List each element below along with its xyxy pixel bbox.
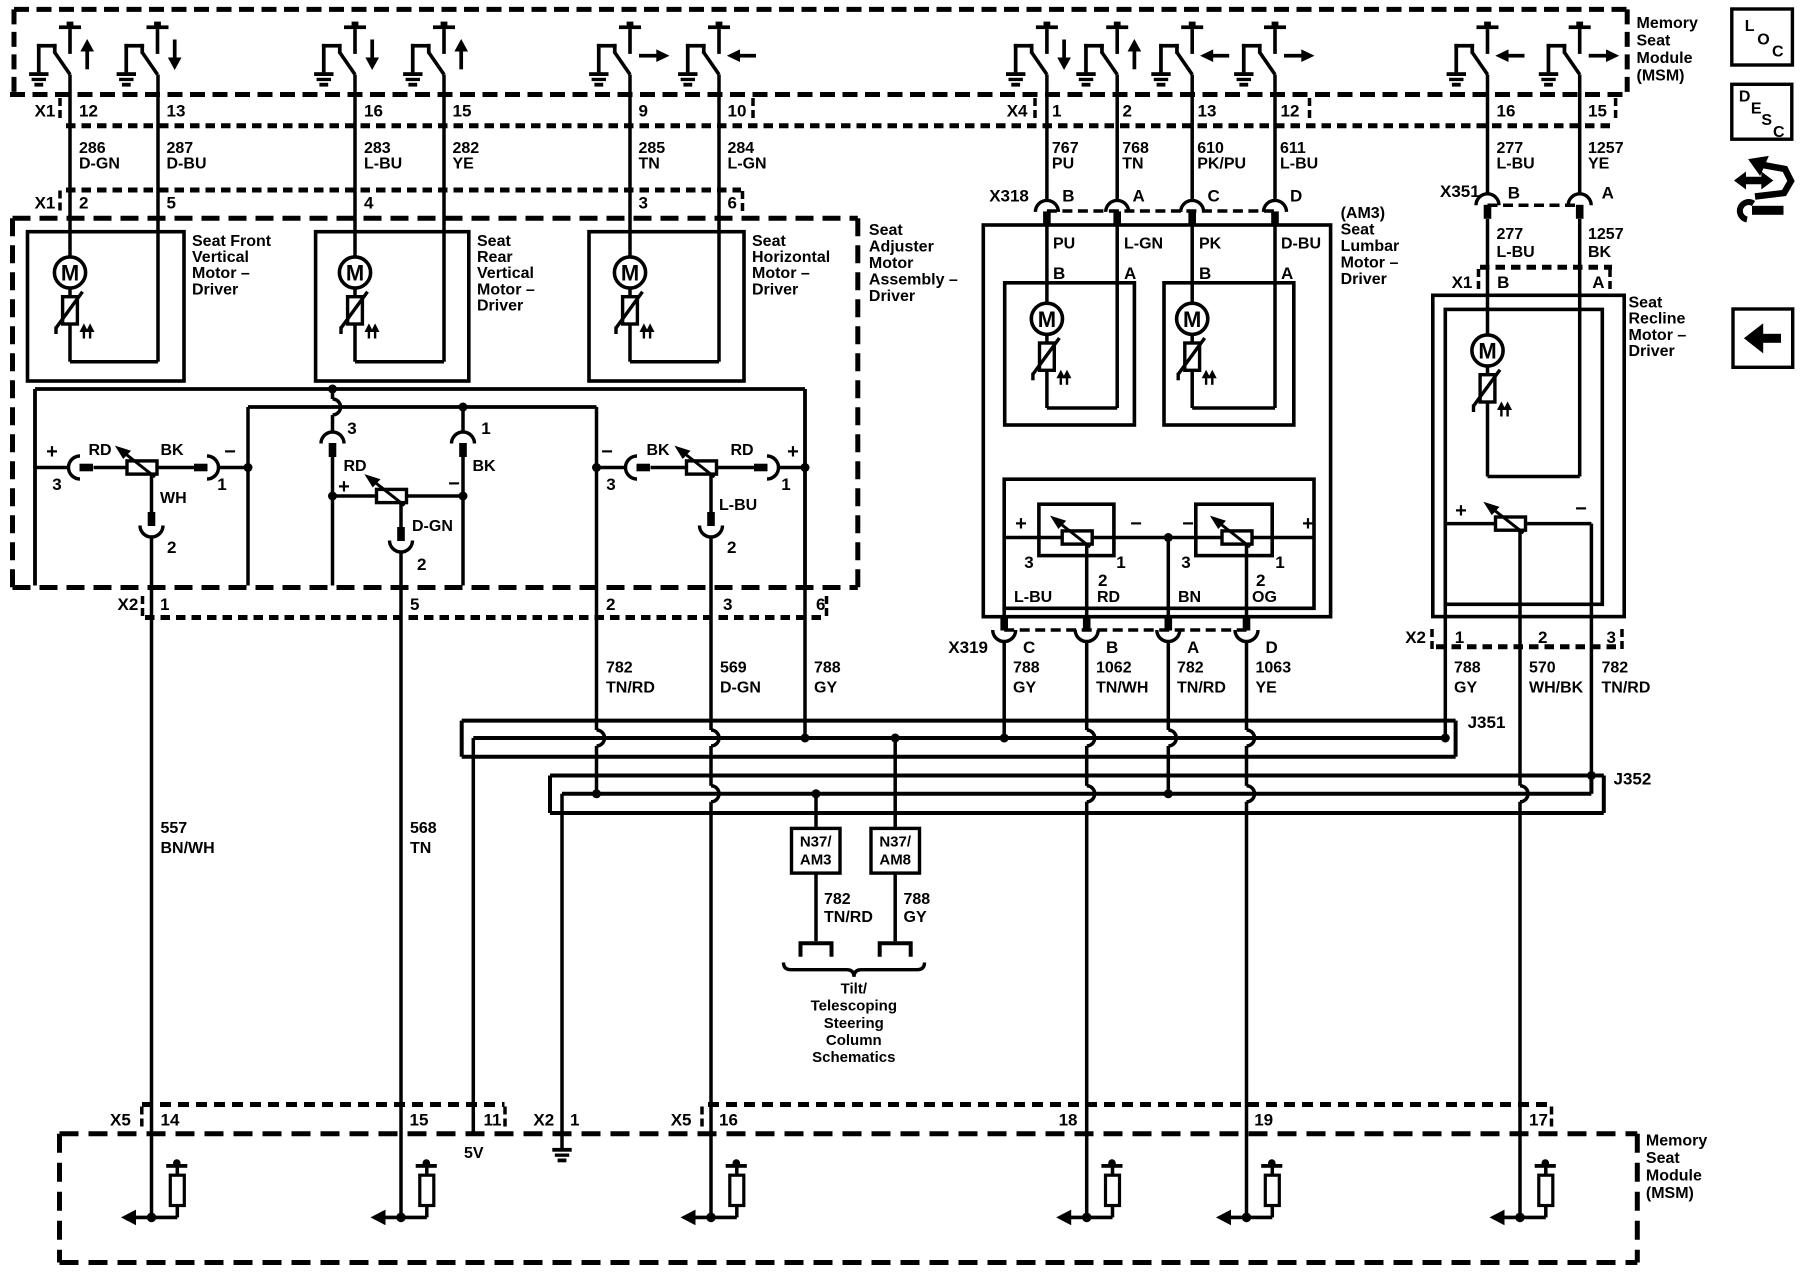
connector X319 pin D — [1235, 630, 1258, 642]
splice J351 bus bottom line L3 — [462, 755, 1456, 759]
connector X318 pin B — [1035, 200, 1058, 212]
svg-text:TN: TN — [639, 156, 660, 173]
wire 788 GY from X2-6 — [803, 586, 807, 739]
svg-text:+: + — [1302, 513, 1314, 535]
node splice J352 A — [1164, 789, 1173, 798]
connector pot2 pin1 — [452, 432, 475, 443]
node splice on J352 — [592, 789, 601, 798]
svg-text:J351: J351 — [1468, 713, 1506, 732]
svg-text:D: D — [1290, 187, 1302, 206]
switch S10 lumbar fwd — [1234, 22, 1313, 87]
connector X319 pin B — [1075, 630, 1098, 642]
svg-text:+: + — [787, 441, 799, 463]
svg-text:16: 16 — [364, 102, 383, 121]
svg-text:15: 15 — [410, 1111, 429, 1130]
connector pot3 pin1 — [767, 456, 779, 479]
svg-text:Horizontal: Horizontal — [752, 249, 830, 266]
svg-text:TN: TN — [410, 840, 431, 857]
svg-text:X2: X2 — [118, 595, 139, 614]
svg-text:Assembly –: Assembly – — [869, 272, 958, 289]
connector X318 pin A — [1106, 200, 1129, 212]
wire 282 YE pin15 loop — [442, 75, 446, 362]
connector pot1 pin3 — [69, 456, 81, 479]
svg-text:Seat Front: Seat Front — [192, 233, 272, 250]
connector X318 pin D — [1264, 200, 1287, 212]
connector X319 pin A — [1157, 630, 1180, 642]
splice J351 bus top line L1 — [462, 719, 1456, 723]
wire X351-B to recline motor — [1486, 219, 1490, 335]
off-page shoe right — [880, 943, 911, 957]
wire J352 right staple — [1602, 776, 1606, 814]
svg-text:17: 17 — [1529, 1111, 1548, 1130]
svg-text:788: 788 — [814, 660, 841, 677]
svg-text:286: 286 — [79, 140, 106, 157]
svg-text:BK: BK — [472, 458, 496, 475]
wires X318 stubs into AM3 box — [1045, 226, 1049, 283]
wire lumbar R feed — [1190, 283, 1194, 303]
motor M3 seat horizontal — [614, 257, 653, 339]
recline inner box — [1445, 309, 1602, 604]
svg-text:3: 3 — [1024, 553, 1033, 572]
wire label 285 TN — [639, 140, 666, 173]
Memory Seat Module (MSM) top dashed box — [10, 9, 1627, 94]
brace — [784, 963, 925, 977]
svg-text:A: A — [1592, 273, 1604, 292]
wire pot3 - side — [597, 466, 626, 470]
svg-text:16: 16 — [1497, 102, 1516, 121]
svg-text:J352: J352 — [1614, 770, 1652, 789]
svg-text:15: 15 — [1588, 102, 1607, 121]
icon LOC box — [1732, 9, 1793, 65]
svg-text:A: A — [1124, 264, 1136, 283]
wire pot3 BK — [651, 466, 687, 470]
svg-text:1: 1 — [570, 1111, 579, 1130]
svg-text:Lumbar: Lumbar — [1341, 238, 1400, 255]
wire lumbar pot feed right — [1252, 536, 1314, 540]
svg-text:2: 2 — [417, 555, 426, 574]
svg-text:BN/WH: BN/WH — [161, 840, 215, 857]
svg-text:Seat: Seat — [1646, 1150, 1680, 1167]
svg-text:PK: PK — [1199, 235, 1222, 252]
svg-text:D-BU: D-BU — [1281, 235, 1321, 252]
svg-text:C: C — [1772, 44, 1784, 61]
motor M2 seat rear vertical — [339, 257, 378, 339]
svg-text:Driver: Driver — [869, 288, 915, 305]
svg-text:−: − — [224, 441, 236, 463]
connector pot1 pin1 — [207, 456, 219, 479]
svg-text:2: 2 — [727, 538, 736, 557]
wire line B right drop to X2-2 — [595, 407, 599, 586]
svg-text:GY: GY — [814, 680, 837, 697]
svg-text:X4: X4 — [1007, 102, 1028, 121]
wire lumbar mid vertical — [1167, 538, 1171, 617]
node splice J351 C — [1000, 734, 1009, 743]
connector pot3 pin2 — [700, 526, 723, 538]
svg-text:B: B — [1062, 187, 1074, 206]
svg-text:1: 1 — [217, 475, 226, 494]
svg-text:Schematics: Schematics — [812, 1049, 895, 1066]
node lumbar mid junction — [1164, 533, 1173, 542]
lumbar motor box R — [1164, 283, 1294, 425]
svg-text:B: B — [1106, 638, 1118, 657]
wire J351 right staple — [1454, 721, 1458, 757]
wire 287 D-BU pin13 loop — [156, 75, 160, 362]
switch S4 seat rear vertical up — [403, 22, 467, 87]
wire label 1257 BK — [1588, 226, 1624, 261]
wire pot2 wiper D-GN — [399, 502, 403, 527]
svg-text:9: 9 — [639, 102, 648, 121]
label Tilt/Telescoping Steering Column Schematics — [811, 981, 897, 1066]
wire pot1 - side — [219, 466, 249, 470]
label Seat Rear Vertical Motor - Driver — [477, 233, 535, 315]
pull-up resistor + signal arrow pin14 — [122, 1159, 187, 1224]
connector row X351 — [1440, 182, 1580, 205]
switch S6 seat horizontal back — [678, 22, 756, 87]
svg-text:X351: X351 — [1440, 182, 1480, 201]
svg-text:AM8: AM8 — [879, 852, 911, 869]
svg-text:16: 16 — [719, 1111, 738, 1130]
wire pot3 + side — [779, 466, 806, 470]
node splice on J351 — [801, 734, 810, 743]
node splice J351 recline — [1441, 734, 1450, 743]
wire label 788 GY steering — [904, 891, 931, 926]
svg-text:X1: X1 — [35, 194, 56, 213]
svg-text:YE: YE — [1588, 156, 1610, 173]
svg-text:Motor –: Motor – — [477, 281, 535, 298]
svg-text:5: 5 — [167, 194, 176, 213]
svg-text:1: 1 — [481, 419, 490, 438]
wire label 768 TN — [1122, 140, 1149, 173]
svg-text:13: 13 — [167, 102, 186, 121]
switch S9 lumbar back — [1151, 22, 1229, 87]
svg-text:1: 1 — [1052, 102, 1061, 121]
svg-text:M: M — [346, 261, 364, 286]
wire pot2 + vertical — [331, 457, 335, 586]
Memory Seat Module (MSM) bottom dashed box — [60, 1134, 1638, 1263]
wire 788 GY to steering column — [893, 873, 897, 941]
svg-text:3: 3 — [639, 194, 648, 213]
svg-text:Vertical: Vertical — [192, 249, 249, 266]
svg-text:RD: RD — [343, 458, 366, 475]
svg-text:Seat: Seat — [1629, 294, 1663, 311]
svg-text:15: 15 — [453, 102, 472, 121]
svg-text:A: A — [1187, 638, 1199, 657]
wire label 286 D-GN — [79, 140, 120, 173]
wire lumbar left edge down — [1002, 608, 1006, 616]
svg-text:GY: GY — [1454, 680, 1477, 697]
svg-text:Tilt/: Tilt/ — [841, 981, 868, 998]
svg-text:610: 610 — [1197, 140, 1224, 157]
svg-text:3: 3 — [606, 475, 615, 494]
wire 1062 TN/WH X319-B — [1085, 642, 1089, 731]
svg-text:1: 1 — [1455, 628, 1464, 647]
switch S12 recline fwd — [1539, 22, 1618, 87]
svg-text:782: 782 — [824, 891, 851, 908]
svg-text:WH/BK: WH/BK — [1529, 680, 1584, 697]
svg-text:M: M — [1478, 339, 1496, 364]
svg-text:A: A — [1133, 187, 1145, 206]
svg-text:1: 1 — [160, 595, 169, 614]
potentiometer P4 lumbar position A — [1051, 517, 1092, 548]
svg-text:Seat: Seat — [869, 222, 903, 239]
lumbar pot labels — [1014, 513, 1314, 606]
switch S11 recline back — [1447, 22, 1525, 87]
svg-text:AM3: AM3 — [800, 852, 832, 869]
wire pot1 + side — [35, 466, 69, 470]
svg-text:Driver: Driver — [1341, 271, 1387, 288]
node pot3 + junction — [801, 463, 810, 472]
potentiometer P3 seat horizontal position — [676, 447, 717, 478]
wire 284 L-GN pin10 loop — [717, 75, 721, 362]
svg-text:767: 767 — [1052, 140, 1079, 157]
wire M2 loop — [353, 324, 357, 362]
svg-text:X5: X5 — [110, 1111, 131, 1130]
AM3 Seat Lumbar Motor outer box — [983, 225, 1330, 617]
svg-text:TN/RD: TN/RD — [1177, 680, 1226, 697]
svg-text:Seat: Seat — [477, 233, 511, 250]
switch S2 seat front vertical down — [117, 22, 181, 87]
svg-text:2: 2 — [167, 538, 176, 557]
wire pot2 pin3 drop with hop — [331, 389, 335, 399]
wire label 610 PK/PU — [1197, 140, 1246, 173]
wire J352 riser to L4 — [1589, 776, 1593, 794]
wire 1257 YE pin15 — [1578, 75, 1582, 195]
svg-text:2: 2 — [1098, 571, 1107, 590]
connector row X2 dotted line — [145, 615, 827, 620]
Seat Adjuster Motor Assembly dashed box — [13, 218, 858, 587]
svg-text:3: 3 — [1181, 553, 1190, 572]
svg-text:L-BU: L-BU — [1497, 244, 1535, 261]
svg-text:YE: YE — [453, 156, 475, 173]
svg-text:3: 3 — [723, 595, 732, 614]
svg-text:TN/RD: TN/RD — [824, 909, 873, 926]
motor M5 lumbar R — [1177, 303, 1216, 385]
connector row X2 recline — [1405, 628, 1622, 649]
node splice J352 N37 — [812, 789, 821, 798]
connector row X1 recline labels — [1452, 269, 1610, 292]
wire N37/AM8 up to J351 — [893, 738, 897, 828]
label Seat Adjuster Motor Assembly - Driver — [869, 222, 958, 305]
potentiometer P2 seat rear vertical position — [366, 475, 407, 506]
potentiometer P5 lumbar position B — [1211, 517, 1252, 548]
svg-text:10: 10 — [728, 102, 747, 121]
connector pot2 pin3 — [321, 432, 344, 443]
svg-text:788: 788 — [1454, 660, 1481, 677]
svg-text:2: 2 — [1538, 628, 1547, 647]
svg-text:782: 782 — [1177, 660, 1204, 677]
svg-text:M: M — [1183, 307, 1201, 332]
svg-text:283: 283 — [364, 140, 391, 157]
pull-up resistor + signal arrow pin16 — [682, 1159, 747, 1224]
svg-text:TN/RD: TN/RD — [1602, 680, 1651, 697]
svg-text:+: + — [338, 476, 350, 498]
wire pot1 BK — [157, 466, 194, 470]
wire label 282 YE — [453, 140, 480, 173]
svg-text:Steering: Steering — [824, 1015, 884, 1032]
svg-text:1: 1 — [781, 475, 790, 494]
svg-text:BK: BK — [646, 442, 670, 459]
svg-text:Driver: Driver — [192, 281, 238, 298]
wire 5V line L2 — [473, 736, 1445, 740]
svg-text:12: 12 — [1281, 102, 1300, 121]
svg-text:14: 14 — [161, 1111, 180, 1130]
connector pot2 pin2 — [390, 541, 413, 553]
connector row X1/X4 pin labels — [35, 98, 1616, 121]
svg-text:PU: PU — [1052, 156, 1074, 173]
svg-text:2: 2 — [79, 194, 88, 213]
svg-text:3: 3 — [52, 475, 61, 494]
svg-text:YE: YE — [1256, 680, 1278, 697]
wire M3 loop — [628, 324, 632, 362]
svg-text:D-GN: D-GN — [79, 156, 120, 173]
label Seat Front Vertical Motor - Driver — [192, 233, 272, 299]
node splice J351 N37 — [891, 734, 900, 743]
motor M1 seat front vertical — [54, 257, 93, 339]
pull-up resistor + signal arrow pin18 — [1057, 1159, 1122, 1224]
svg-text:569: 569 — [720, 660, 747, 677]
svg-text:788: 788 — [1013, 660, 1040, 677]
svg-text:C: C — [1023, 638, 1035, 657]
label Seat Recline Motor - Driver — [1629, 294, 1687, 360]
svg-text:13: 13 — [1198, 102, 1217, 121]
svg-text:4: 4 — [364, 194, 374, 213]
splice J352 top line L4 — [550, 774, 1604, 778]
svg-text:Module: Module — [1646, 1168, 1702, 1185]
svg-text:B: B — [1508, 183, 1520, 202]
off-page shoe left — [801, 943, 832, 957]
svg-text:Telescoping: Telescoping — [811, 998, 897, 1015]
lumbar pot B small box — [1196, 504, 1272, 555]
svg-text:RD: RD — [88, 442, 111, 459]
svg-text:782: 782 — [606, 660, 633, 677]
wire labels inside AM3 top — [1053, 235, 1321, 252]
svg-text:C: C — [1208, 187, 1220, 206]
svg-text:X1: X1 — [35, 102, 56, 121]
connector X319 pin C — [993, 630, 1016, 642]
wire M1 loop — [68, 324, 72, 362]
svg-text:TN/WH: TN/WH — [1096, 680, 1148, 697]
connector row X318 — [989, 187, 1275, 211]
connector pot1 pin2 — [140, 526, 163, 538]
svg-text:Memory: Memory — [1646, 1133, 1707, 1150]
svg-text:Memory: Memory — [1637, 15, 1698, 32]
svg-text:X5: X5 — [671, 1111, 692, 1130]
svg-text:5: 5 — [410, 595, 419, 614]
icon double arrow + wrench — [1734, 157, 1791, 220]
Seat Front Vertical Motor box — [28, 232, 185, 381]
icon back arrow box — [1733, 309, 1793, 367]
svg-text:RD: RD — [1097, 589, 1120, 606]
svg-text:285: 285 — [639, 140, 666, 157]
svg-text:A: A — [1281, 264, 1293, 283]
svg-text:D-GN: D-GN — [720, 680, 761, 697]
wire label 277 L-BU — [1497, 140, 1535, 173]
wire label 611 L-BU — [1280, 140, 1318, 173]
wire 277 L-BU pin16 — [1486, 75, 1490, 195]
wire 568 TN down — [399, 552, 403, 1217]
svg-text:Motor: Motor — [869, 255, 913, 272]
connector N37/AM8 box — [871, 828, 920, 873]
wire 782 TN/RD drop to X2-1 ground — [560, 794, 564, 1148]
svg-text:1062: 1062 — [1096, 660, 1132, 677]
svg-text:−: − — [601, 441, 613, 463]
wire label 782 TN/RD steering — [824, 891, 873, 926]
svg-text:3: 3 — [1607, 628, 1616, 647]
svg-text:611: 611 — [1280, 140, 1306, 157]
svg-text:Driver: Driver — [477, 298, 523, 315]
svg-text:PK/PU: PK/PU — [1197, 156, 1246, 173]
supply line B — [248, 405, 597, 409]
svg-text:TN/RD: TN/RD — [606, 680, 655, 697]
pin letters inside AM3 — [1053, 264, 1293, 283]
svg-text:L-BU: L-BU — [1497, 156, 1535, 173]
svg-text:Motor –: Motor – — [192, 265, 250, 282]
pot2 labels — [338, 419, 496, 574]
pot1 labels — [46, 441, 236, 557]
label Memory Seat Module (MSM) top — [1637, 15, 1698, 85]
connector X351 pin B — [1476, 194, 1499, 206]
svg-text:BK: BK — [160, 442, 184, 459]
svg-text:A: A — [1602, 183, 1614, 202]
svg-text:X319: X319 — [948, 638, 988, 657]
wire 283 L-BU pin16 to motor — [353, 75, 357, 257]
switch S1 seat front vertical up — [29, 22, 93, 87]
wire line B left drop — [246, 407, 250, 586]
svg-text:RD: RD — [730, 442, 753, 459]
wire label 277 L-BU lower — [1497, 226, 1535, 261]
svg-text:768: 768 — [1122, 140, 1149, 157]
wire pot3 wiper L-BU — [709, 473, 713, 512]
node pot2 - — [459, 492, 468, 501]
svg-text:5V: 5V — [464, 1145, 484, 1162]
svg-text:18: 18 — [1059, 1111, 1078, 1130]
wire pot2 element — [333, 494, 377, 498]
svg-text:L-BU: L-BU — [1014, 589, 1052, 606]
svg-text:BN: BN — [1178, 589, 1201, 606]
svg-text:OG: OG — [1252, 589, 1277, 606]
svg-text:E: E — [1751, 101, 1762, 118]
svg-text:(MSM): (MSM) — [1637, 68, 1685, 85]
svg-text:X2: X2 — [533, 1111, 554, 1130]
node pot3 - junction — [592, 463, 601, 472]
svg-text:Rear: Rear — [477, 249, 513, 266]
svg-text:284: 284 — [728, 140, 755, 157]
bottom connector row labels — [110, 1107, 1552, 1130]
svg-text:788: 788 — [904, 891, 931, 908]
position sensor box top line A — [35, 387, 805, 391]
svg-text:N37/: N37/ — [800, 834, 833, 851]
wire lumbar wiper A — [1085, 543, 1089, 617]
wire 788 GY X319-C — [1002, 642, 1006, 739]
svg-text:L-BU: L-BU — [364, 156, 402, 173]
wire 768 TN pin2 — [1115, 75, 1119, 201]
wire pot2 - vertical — [461, 457, 465, 586]
svg-text:277: 277 — [1497, 140, 1524, 157]
svg-text:282: 282 — [453, 140, 480, 157]
svg-text:B: B — [1199, 264, 1211, 283]
svg-text:2: 2 — [606, 595, 615, 614]
wire M4 loop — [1045, 370, 1049, 408]
wire 767 PU pin1 — [1045, 75, 1049, 201]
svg-text:1: 1 — [1116, 553, 1125, 572]
wire J351 left staple — [460, 721, 464, 757]
wire 285 TN pin9 to motor — [628, 75, 632, 257]
switch S5 seat horizontal fwd — [589, 22, 668, 87]
wire label 1257 YE — [1588, 140, 1624, 173]
potentiometer P1 seat front vertical position — [116, 447, 157, 478]
svg-text:S: S — [1761, 112, 1772, 129]
wire label 284 L-GN — [728, 140, 767, 173]
